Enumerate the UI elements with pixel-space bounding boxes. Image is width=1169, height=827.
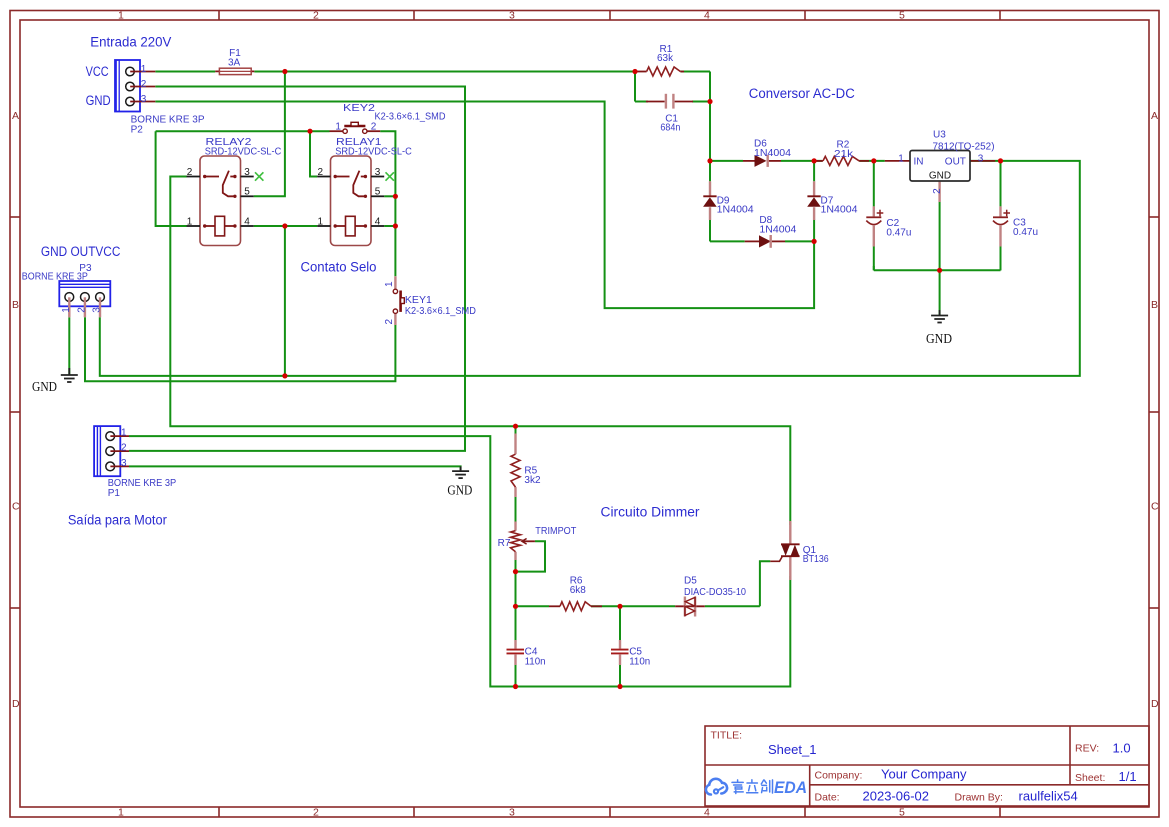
svg-text:D: D	[1151, 698, 1159, 710]
svg-text:1N4004: 1N4004	[754, 148, 791, 159]
junction D7-D8 node	[812, 239, 817, 244]
svg-text:GND: GND	[929, 170, 951, 181]
junction relay rail node	[307, 129, 312, 134]
connector P1	[94, 426, 176, 499]
svg-text:KEY2: KEY2	[343, 103, 376, 114]
connector P2	[115, 60, 205, 135]
wire R1 to C1 parallel	[635, 72, 710, 161]
svg-text:BT136: BT136	[803, 554, 829, 565]
junction C1 right node	[707, 99, 712, 104]
svg-text:Company:: Company:	[815, 770, 863, 782]
svg-text:GND OUTVCC: GND OUTVCC	[41, 244, 121, 259]
svg-text:SRD-12VDC-SL-C: SRD-12VDC-SL-C	[335, 147, 412, 158]
junction R6-C4 node	[513, 604, 518, 609]
diac D5	[675, 575, 746, 616]
svg-text:Date:: Date:	[815, 792, 840, 804]
connector P3	[22, 263, 111, 317]
capacitor C2	[866, 161, 911, 270]
wire R6 D5 row	[516, 605, 760, 607]
svg-text:Drawn By:: Drawn By:	[955, 792, 1003, 804]
no-connect X RELAY1 pin3	[386, 172, 394, 180]
wire coil node down to VCC rail	[284, 226, 286, 376]
svg-text:1N4004: 1N4004	[759, 225, 796, 236]
svg-text:SRD-12VDC-SL-C: SRD-12VDC-SL-C	[205, 147, 282, 158]
capacitor C1	[646, 94, 693, 134]
svg-text:K2-3.6×6.1_SMD: K2-3.6×6.1_SMD	[375, 112, 446, 123]
resistor R2	[816, 139, 869, 165]
svg-text:1: 1	[384, 281, 395, 287]
resistor R1	[637, 44, 684, 76]
diode D9	[703, 161, 754, 220]
junction RELAY1 pin5 node	[393, 194, 398, 199]
svg-text:Entrada 220V: Entrada 220V	[90, 34, 171, 49]
svg-text:B: B	[12, 299, 19, 311]
ground symbol near U3	[931, 310, 948, 323]
svg-text:1: 1	[61, 307, 72, 313]
svg-text:REV:: REV:	[1075, 743, 1099, 755]
junction C5 bottom node	[617, 684, 622, 689]
svg-text:A: A	[1151, 110, 1158, 122]
svg-text:2: 2	[121, 443, 127, 454]
diode D7	[807, 161, 858, 220]
wire RELAY1 pin4 to node	[384, 225, 395, 227]
resistor R6	[549, 576, 602, 611]
svg-text:OUT: OUT	[945, 156, 966, 167]
wire C5 branch	[619, 606, 621, 686]
svg-text:GND: GND	[32, 380, 57, 395]
wire P1 pin3 to ground	[129, 466, 461, 470]
svg-text:684n: 684n	[660, 123, 680, 134]
svg-text:5: 5	[899, 10, 905, 22]
svg-text:3: 3	[978, 153, 984, 164]
ground symbol P1 pin3	[452, 466, 469, 478]
wire P2 pin2 to P1 pin2	[129, 87, 465, 451]
wire RELAY2 pin2 to dimmer top rail and bottom rail to P1 pin1	[170, 177, 790, 526]
svg-text:1: 1	[898, 153, 904, 164]
svg-text:7812(TO-252): 7812(TO-252)	[933, 142, 995, 153]
wire VCC from P2 pin1 through F1	[155, 71, 635, 73]
svg-text:1.0: 1.0	[1113, 741, 1131, 756]
capacitor C4	[507, 640, 546, 667]
junction C4 bottom node	[513, 684, 518, 689]
svg-text:5: 5	[375, 187, 381, 198]
svg-text:110n: 110n	[525, 656, 546, 667]
svg-text:IN: IN	[914, 156, 924, 167]
junction R7 wiper node	[513, 569, 518, 574]
svg-text:2: 2	[318, 167, 324, 178]
svg-text:P2: P2	[131, 124, 144, 135]
ground symbol P3 pin1	[61, 368, 78, 382]
wire relay top rail to RELAY2 pin1	[156, 131, 187, 226]
svg-text:D5: D5	[684, 575, 697, 586]
svg-text:U3: U3	[933, 130, 946, 141]
wire D5 to Q1 gate	[760, 561, 770, 606]
svg-text:KEY1: KEY1	[405, 295, 432, 306]
svg-text:1N4004: 1N4004	[821, 205, 858, 216]
svg-text:1N4004: 1N4004	[717, 205, 754, 216]
wire RELAY1 pin5 to node	[384, 195, 395, 197]
wire P2 pin3 to D7 anode	[155, 102, 814, 309]
diode D8	[745, 215, 797, 248]
svg-text:3: 3	[509, 10, 515, 22]
wire C4 branch	[515, 606, 517, 686]
wire KEY2 pin2 to KEY1 pin1	[380, 131, 395, 276]
wire P3 pin2 to KEY1 pin2	[85, 317, 395, 381]
wire RELAY2 pin4 to RELAY1 pin1	[254, 225, 318, 227]
svg-text:2: 2	[141, 79, 147, 90]
svg-text:1: 1	[141, 64, 147, 75]
svg-text:A: A	[12, 110, 19, 122]
svg-text:DIAC-DO35-10: DIAC-DO35-10	[684, 587, 746, 598]
svg-text:1: 1	[121, 428, 127, 439]
svg-text:Contato Selo: Contato Selo	[301, 259, 377, 274]
no-connect X RELAY2 pin3	[255, 172, 263, 180]
capacitor C5	[611, 640, 650, 667]
svg-text:Sheet:: Sheet:	[1075, 772, 1105, 784]
svg-text:21k: 21k	[834, 149, 854, 160]
svg-text:5: 5	[899, 807, 905, 819]
svg-text:raulfelix54: raulfelix54	[1019, 789, 1078, 804]
wire D6 row	[710, 160, 1001, 162]
triac Q1	[770, 521, 829, 580]
svg-text:1: 1	[118, 807, 124, 819]
pushbutton KEY2	[330, 103, 446, 133]
svg-text:2: 2	[313, 10, 319, 22]
wire P3 pin3 VCC rail to 7812 OUT	[100, 161, 1080, 376]
svg-text:4: 4	[704, 807, 710, 819]
svg-text:GND: GND	[926, 332, 952, 347]
relay RELAY1	[317, 137, 412, 246]
regulator U3 7812	[885, 130, 995, 202]
svg-text:EDA: EDA	[774, 779, 807, 797]
svg-text:5: 5	[244, 187, 250, 198]
pushbutton KEY1	[384, 276, 476, 325]
wire trimpot wiper	[516, 541, 546, 571]
svg-text:4: 4	[244, 216, 250, 227]
svg-text:1: 1	[118, 10, 124, 22]
junction U3 OUT node	[998, 158, 1003, 163]
svg-text:2: 2	[932, 188, 943, 194]
svg-text:1: 1	[335, 121, 341, 132]
svg-text:2: 2	[187, 167, 193, 178]
junction D6-D9 node	[707, 158, 712, 163]
wire C2 C3 ground rail	[874, 202, 1001, 315]
svg-text:B: B	[1151, 299, 1158, 311]
svg-text:VCC: VCC	[86, 64, 109, 79]
svg-text:3: 3	[375, 167, 381, 178]
svg-text:2: 2	[313, 807, 319, 819]
relay RELAY2	[187, 137, 282, 246]
fuse F1	[215, 48, 254, 75]
svg-text:Your Company: Your Company	[881, 767, 967, 782]
svg-text:C: C	[12, 501, 20, 513]
svg-text:K2-3.6×6.1_SMD: K2-3.6×6.1_SMD	[405, 306, 476, 317]
junction R1-C1 left node	[632, 69, 637, 74]
title block	[705, 726, 1149, 806]
junction RELAY1 pin4 node	[393, 223, 398, 228]
svg-text:D: D	[12, 698, 20, 710]
diode D6	[743, 139, 791, 167]
svg-text:1: 1	[318, 216, 324, 227]
svg-text:2: 2	[371, 121, 377, 132]
svg-text:3: 3	[141, 94, 147, 105]
svg-text:Conversor AC-DC: Conversor AC-DC	[749, 86, 855, 101]
logo JLCEDA	[706, 779, 807, 797]
resistor R5	[511, 434, 541, 498]
svg-text:4: 4	[704, 10, 710, 22]
junction coil node	[282, 223, 287, 228]
wire D7 bottom	[813, 220, 815, 242]
svg-text:63k: 63k	[657, 53, 674, 64]
svg-text:GND: GND	[447, 483, 472, 498]
svg-text:6k8: 6k8	[570, 585, 587, 596]
svg-text:Circuito Dimmer: Circuito Dimmer	[601, 504, 701, 519]
junction D6-D7-R2 node	[812, 158, 817, 163]
svg-text:4: 4	[375, 216, 381, 227]
svg-text:TITLE:: TITLE:	[711, 730, 743, 742]
junction R5 top node	[513, 424, 518, 429]
svg-text:3: 3	[509, 807, 515, 819]
junction GND rail node	[937, 268, 942, 273]
svg-text:C: C	[1151, 501, 1159, 513]
junction VCC rail node	[282, 373, 287, 378]
svg-text:110n: 110n	[629, 656, 650, 667]
svg-text:2: 2	[77, 307, 88, 313]
wire VCC junction down to RELAY2 pin5	[254, 72, 285, 197]
svg-text:2: 2	[384, 319, 395, 325]
svg-text:TRIMPOT: TRIMPOT	[535, 526, 576, 537]
svg-text:R7: R7	[498, 538, 511, 549]
junction R2-C2 node	[871, 158, 876, 163]
junction fuse-relay node	[282, 69, 287, 74]
svg-text:3: 3	[121, 458, 127, 469]
capacitor C3	[993, 161, 1038, 270]
wire node to RELAY1 pin2	[310, 131, 317, 176]
svg-text:1/1: 1/1	[1119, 769, 1137, 784]
svg-text:BORNE KRE 3P: BORNE KRE 3P	[22, 271, 88, 282]
svg-text:P1: P1	[108, 488, 121, 499]
svg-text:3k2: 3k2	[524, 475, 541, 486]
svg-text:1: 1	[187, 216, 193, 227]
svg-text:3: 3	[244, 167, 250, 178]
wire relay top rail to KEY2 pin1	[156, 130, 330, 132]
svg-text:GND: GND	[86, 93, 111, 108]
svg-text:3A: 3A	[228, 58, 241, 69]
svg-text:2023-06-02: 2023-06-02	[863, 789, 930, 804]
wire D9 to D8 row	[710, 220, 814, 241]
svg-text:3: 3	[92, 307, 103, 313]
svg-text:0.47u: 0.47u	[1013, 227, 1038, 238]
svg-text:0.47u: 0.47u	[886, 228, 911, 239]
wire dimmer R5 branch	[515, 426, 517, 606]
wire P3 pin1 to ground	[68, 317, 70, 374]
junction R6-C5 node	[617, 604, 622, 609]
trimpot R7	[498, 522, 577, 561]
svg-text:Saída para Motor: Saída para Motor	[68, 513, 167, 528]
svg-text:Sheet_1: Sheet_1	[768, 742, 816, 757]
